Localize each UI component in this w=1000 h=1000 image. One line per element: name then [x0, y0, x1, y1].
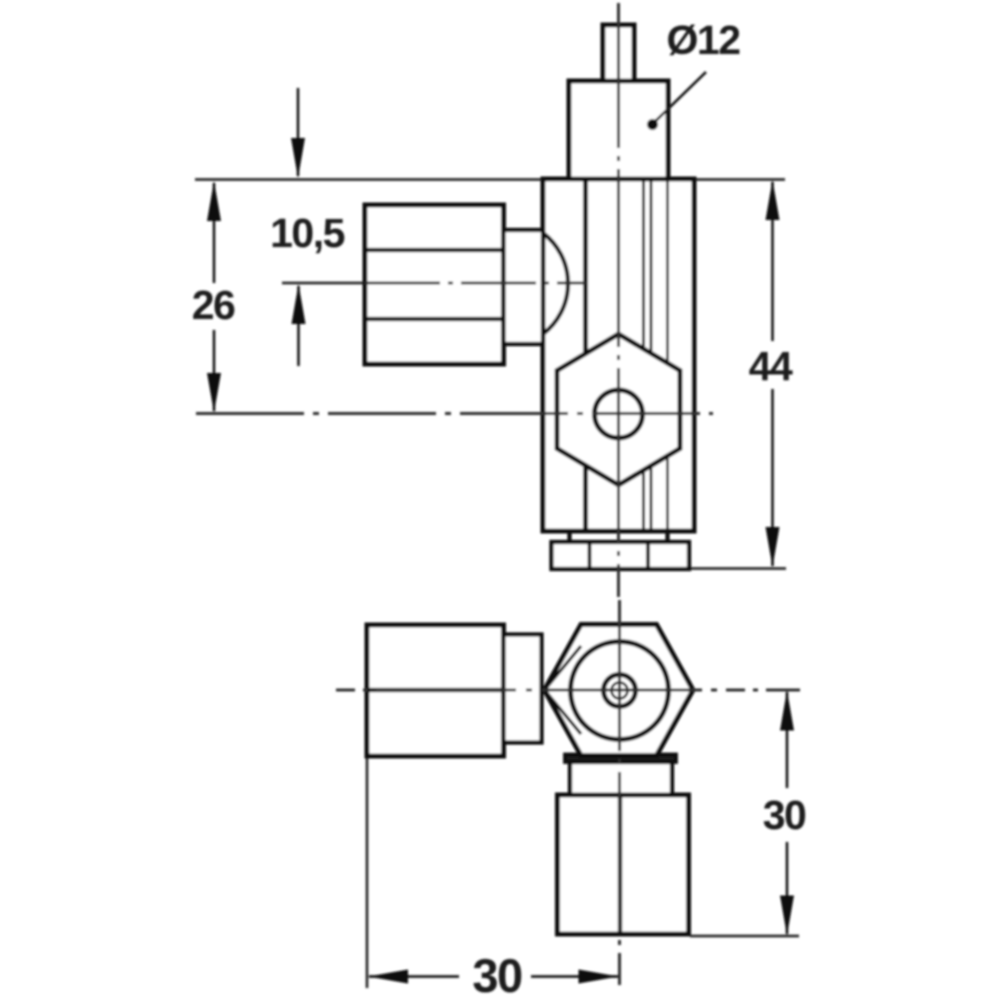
svg-text:30: 30	[472, 949, 522, 1000]
svg-text:10,5: 10,5	[270, 210, 344, 256]
svg-text:Ø12: Ø12	[667, 17, 741, 63]
svg-text:26: 26	[192, 282, 235, 328]
svg-text:30: 30	[763, 792, 806, 838]
svg-text:44: 44	[749, 343, 793, 389]
